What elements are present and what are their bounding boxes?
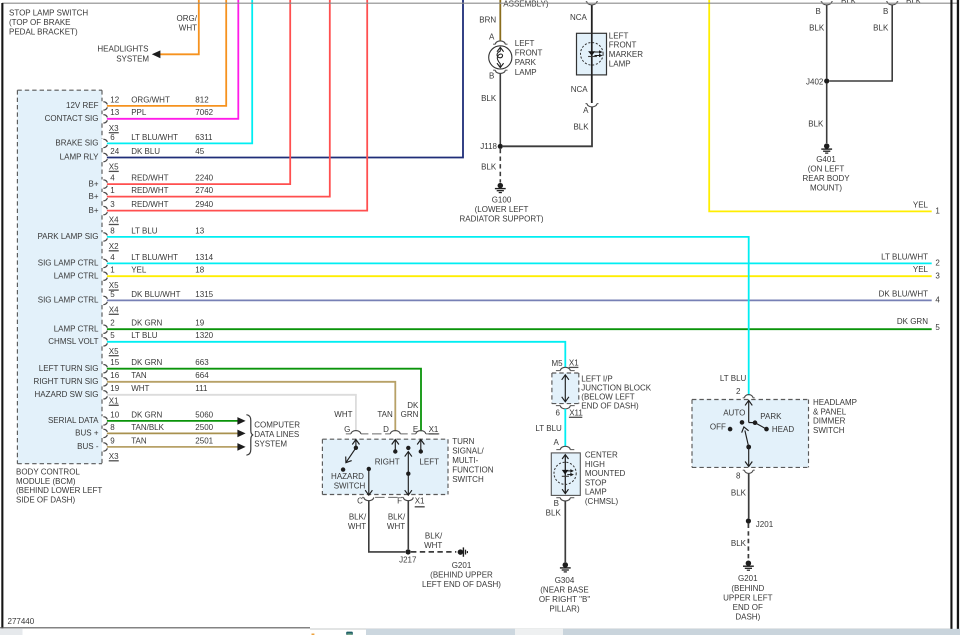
wire BLK/WHT from pin F xyxy=(407,501,409,550)
svg-text:SERIAL DATA: SERIAL DATA xyxy=(48,416,99,425)
bottom strip teal icon xyxy=(346,632,353,635)
svg-text:SWITCH: SWITCH xyxy=(452,475,484,484)
svg-text:LEFT I/P: LEFT I/P xyxy=(581,374,612,383)
svg-text:LT BLU/WHT: LT BLU/WHT xyxy=(881,252,928,261)
svg-text:MOUNTED: MOUNTED xyxy=(585,469,626,478)
wire RED/WHT 2940 xyxy=(107,0,367,211)
svg-text:HIGH: HIGH xyxy=(585,460,605,469)
svg-text:TAN: TAN xyxy=(131,371,147,380)
svg-text:J118: J118 xyxy=(480,142,497,151)
right turn contact xyxy=(392,440,399,445)
junction block pin M5 xyxy=(556,370,561,372)
turn signal connector X1 face bottom xyxy=(362,496,414,498)
svg-text:E: E xyxy=(413,425,418,434)
svg-text:RIGHT: RIGHT xyxy=(375,457,400,466)
svg-text:X5: X5 xyxy=(109,347,119,356)
svg-text:2240: 2240 xyxy=(195,174,213,183)
wire BLK/WHT from pin C xyxy=(369,501,405,552)
svg-text:LEFT: LEFT xyxy=(515,39,535,48)
CHMSL pin B xyxy=(556,497,560,499)
contact OFF xyxy=(728,427,733,432)
ground G201 right xyxy=(746,560,752,566)
svg-text:X5: X5 xyxy=(109,281,119,290)
svg-text:CONTACT SIG: CONTACT SIG xyxy=(45,114,99,123)
junction block pin 6 xyxy=(556,405,561,407)
page right border inner xyxy=(950,0,952,629)
svg-text:X11: X11 xyxy=(569,409,583,418)
svg-text:FRONT: FRONT xyxy=(609,41,637,50)
headlights system arrow xyxy=(152,50,161,58)
svg-text:6: 6 xyxy=(110,133,115,142)
svg-text:1: 1 xyxy=(935,207,940,216)
svg-text:PEDAL BRACKET): PEDAL BRACKET) xyxy=(9,28,78,37)
svg-text:G: G xyxy=(344,425,350,434)
svg-text:12V REF: 12V REF xyxy=(66,101,99,110)
svg-text:3: 3 xyxy=(935,271,940,280)
svg-text:8: 8 xyxy=(736,471,741,480)
svg-text:B: B xyxy=(554,499,559,508)
svg-text:3: 3 xyxy=(110,200,115,209)
svg-text:BLK: BLK xyxy=(573,123,589,132)
svg-text:JUNCTION BLOCK: JUNCTION BLOCK xyxy=(581,383,651,392)
svg-text:END OF DASH): END OF DASH) xyxy=(581,402,639,411)
svg-text:X5: X5 xyxy=(109,163,119,172)
svg-text:DK BLU: DK BLU xyxy=(131,147,160,156)
wire BLK J201 to G201 xyxy=(747,524,749,561)
svg-text:BLK/: BLK/ xyxy=(425,531,443,540)
svg-text:RED/WHT: RED/WHT xyxy=(131,200,168,209)
svg-text:2940: 2940 xyxy=(195,200,213,209)
svg-text:BLK/: BLK/ xyxy=(388,512,406,521)
svg-text:SWITCH: SWITCH xyxy=(813,426,845,435)
svg-text:B: B xyxy=(883,7,888,16)
svg-text:ASSEMBLY): ASSEMBLY) xyxy=(503,0,549,9)
svg-text:TAN: TAN xyxy=(131,436,147,445)
junction J217 xyxy=(405,549,410,554)
svg-text:WHT: WHT xyxy=(179,23,197,32)
page top border xyxy=(2,2,958,4)
svg-text:DATA LINES: DATA LINES xyxy=(254,430,299,439)
svg-text:45: 45 xyxy=(195,147,204,156)
svg-text:F: F xyxy=(397,497,402,506)
svg-text:HAZARD SW SIG: HAZARD SW SIG xyxy=(34,390,98,399)
svg-text:RED/WHT: RED/WHT xyxy=(131,186,168,195)
svg-text:4: 4 xyxy=(110,174,115,183)
contact HEAD xyxy=(764,427,769,432)
svg-text:(TOP OF BRAKE: (TOP OF BRAKE xyxy=(9,18,71,27)
svg-text:TAN/BLK: TAN/BLK xyxy=(131,423,164,432)
svg-text:5060: 5060 xyxy=(195,410,213,419)
svg-text:WHT: WHT xyxy=(131,384,149,393)
junction J118 xyxy=(498,144,503,149)
svg-text:A: A xyxy=(553,438,559,447)
wire BLK pin 8 to J201 xyxy=(748,474,750,519)
junction J201 xyxy=(746,518,751,523)
svg-text:SIG LAMP CTRL: SIG LAMP CTRL xyxy=(38,259,99,268)
svg-text:DK GRN: DK GRN xyxy=(897,317,928,326)
svg-text:LT BLU: LT BLU xyxy=(720,374,747,383)
cut connector B right xyxy=(886,1,887,3)
svg-text:(NEAR BASE: (NEAR BASE xyxy=(540,586,588,595)
svg-text:LT BLU/WHT: LT BLU/WHT xyxy=(131,253,178,262)
marker lamp top connector cut xyxy=(586,1,587,3)
svg-text:1315: 1315 xyxy=(195,290,213,299)
wire marker lamp to pin A xyxy=(591,75,593,103)
svg-text:J217: J217 xyxy=(399,556,417,565)
svg-text:LT BLU: LT BLU xyxy=(535,424,562,433)
contact line to pin F xyxy=(406,446,410,450)
svg-text:M5: M5 xyxy=(551,359,563,368)
svg-text:SYSTEM: SYSTEM xyxy=(116,54,149,63)
wire TAN/BLK 2500 bus+ xyxy=(107,432,238,434)
svg-text:BUS +: BUS + xyxy=(75,429,99,438)
wire BLK/WHT J217 to G201 xyxy=(411,551,456,553)
svg-text:FUNCTION: FUNCTION xyxy=(452,465,494,474)
svg-text:BUS -: BUS - xyxy=(77,442,99,451)
wire BLK CHMSL to G304 xyxy=(564,501,566,562)
svg-text:X1: X1 xyxy=(569,359,579,368)
svg-text:OF RIGHT "B": OF RIGHT "B" xyxy=(539,595,590,604)
svg-text:SIGNAL/: SIGNAL/ xyxy=(452,446,484,455)
svg-text:WHT: WHT xyxy=(334,410,352,419)
svg-text:X1: X1 xyxy=(429,425,439,434)
svg-text:SIDE OF DASH): SIDE OF DASH) xyxy=(16,496,75,505)
wire DK GRN 663 left turn xyxy=(107,369,421,432)
contact AUTO xyxy=(740,420,745,425)
bottom strip blue-gray panel xyxy=(366,629,515,635)
svg-text:PARK: PARK xyxy=(515,58,537,67)
svg-text:HEAD: HEAD xyxy=(772,425,794,434)
svg-text:(BEHIND UPPER: (BEHIND UPPER xyxy=(430,571,493,580)
svg-text:G304: G304 xyxy=(555,576,575,585)
svg-text:BLK: BLK xyxy=(809,24,825,33)
svg-text:LAMP CTRL: LAMP CTRL xyxy=(54,271,99,280)
turn signal switch box xyxy=(322,439,448,494)
svg-text:G401: G401 xyxy=(816,155,836,164)
svg-text:LEFT TURN SIG: LEFT TURN SIG xyxy=(39,364,99,373)
left front marker lamp xyxy=(577,33,607,75)
center high mounted stop lamp xyxy=(551,453,580,496)
svg-text:277440: 277440 xyxy=(8,617,35,626)
link PARK to HEAD xyxy=(755,423,767,429)
svg-text:1314: 1314 xyxy=(195,253,213,262)
svg-text:19: 19 xyxy=(195,319,204,328)
svg-text:J402: J402 xyxy=(806,78,824,87)
svg-text:LAMP RLY: LAMP RLY xyxy=(60,153,99,162)
svg-text:DK GRN: DK GRN xyxy=(131,410,162,419)
svg-text:SWITCH: SWITCH xyxy=(334,482,366,491)
wire LT BLU/WHT 6311 xyxy=(107,0,252,143)
wire YEL 18 xyxy=(107,275,932,277)
svg-text:7062: 7062 xyxy=(195,108,213,117)
svg-text:G201: G201 xyxy=(738,574,758,583)
svg-text:BRAKE SIG: BRAKE SIG xyxy=(55,139,98,148)
wire RED/WHT 2240 xyxy=(107,0,290,184)
page bottom border xyxy=(0,627,310,629)
wire LT BLU 1320 chmsl volt xyxy=(107,342,565,368)
svg-text:B+: B+ xyxy=(88,179,98,188)
svg-text:5: 5 xyxy=(110,331,115,340)
park lamp connector pin B xyxy=(493,69,495,71)
bottom strip left gray block xyxy=(0,628,23,635)
wire TAN 2501 bus- xyxy=(107,446,238,448)
bottom strip right panel xyxy=(563,629,960,635)
wire ORG/WHT to headlights system xyxy=(160,0,199,54)
svg-text:18: 18 xyxy=(195,266,204,275)
wire RED/WHT 2740 xyxy=(107,0,330,197)
wire PPL 7062 xyxy=(107,0,238,119)
svg-text:PARK LAMP SIG: PARK LAMP SIG xyxy=(37,232,98,241)
svg-text:YEL: YEL xyxy=(913,265,929,274)
headlamp switch pin 8 xyxy=(743,469,745,471)
svg-text:D: D xyxy=(383,425,389,434)
svg-text:RED/WHT: RED/WHT xyxy=(131,174,168,183)
svg-text:BLK: BLK xyxy=(481,94,497,103)
left I/P junction block box xyxy=(552,373,579,404)
contact line to pin C xyxy=(367,467,371,471)
svg-text:RADIATOR SUPPORT): RADIATOR SUPPORT) xyxy=(459,215,543,224)
svg-text:NCA: NCA xyxy=(571,85,589,94)
wire BRN park lamp xyxy=(499,0,501,41)
svg-text:8: 8 xyxy=(110,423,115,432)
svg-text:2500: 2500 xyxy=(195,423,213,432)
wire TAN 664 right turn xyxy=(107,382,395,431)
svg-text:13: 13 xyxy=(110,108,119,117)
svg-text:G100: G100 xyxy=(492,196,512,205)
ground G100 xyxy=(498,183,504,189)
svg-text:WHT: WHT xyxy=(424,541,442,550)
svg-text:X1: X1 xyxy=(109,396,119,405)
computer data lines brace xyxy=(246,415,253,456)
wire LT BLU junction block to CHMSL xyxy=(564,409,566,447)
svg-text:9: 9 xyxy=(110,436,115,445)
svg-text:LT BLU/WHT: LT BLU/WHT xyxy=(131,133,178,142)
svg-text:5: 5 xyxy=(110,290,115,299)
svg-text:(ON LEFT: (ON LEFT xyxy=(808,165,845,174)
svg-text:2: 2 xyxy=(935,259,940,268)
svg-text:2501: 2501 xyxy=(195,436,213,445)
svg-text:LAMP: LAMP xyxy=(515,68,537,77)
svg-text:10: 10 xyxy=(110,410,119,419)
svg-text:6: 6 xyxy=(556,409,561,418)
svg-text:LAMP: LAMP xyxy=(585,488,607,497)
wire BLK right to J402 xyxy=(829,5,892,81)
svg-text:1: 1 xyxy=(110,266,115,275)
svg-text:BLK: BLK xyxy=(808,120,824,129)
svg-text:TAN: TAN xyxy=(377,410,393,419)
svg-text:BLK: BLK xyxy=(731,489,747,498)
svg-text:WHT: WHT xyxy=(348,522,366,531)
svg-text:MODULE (BCM): MODULE (BCM) xyxy=(16,477,76,486)
svg-text:MARKER: MARKER xyxy=(609,50,643,59)
svg-text:13: 13 xyxy=(195,226,204,235)
ground G304 xyxy=(563,562,569,568)
svg-text:END OF: END OF xyxy=(733,603,763,612)
svg-text:8: 8 xyxy=(110,226,115,235)
svg-text:SIG LAMP CTRL: SIG LAMP CTRL xyxy=(38,296,99,305)
svg-text:DK GRN: DK GRN xyxy=(131,319,162,328)
wire DK GRN 5060 serial data xyxy=(107,420,238,422)
svg-text:HAZARD: HAZARD xyxy=(331,472,364,481)
svg-text:LEFT: LEFT xyxy=(419,457,439,466)
svg-text:REAR BODY: REAR BODY xyxy=(802,174,850,183)
svg-text:J201: J201 xyxy=(756,520,774,529)
svg-text:BLK: BLK xyxy=(873,24,889,33)
svg-text:BLK: BLK xyxy=(731,539,747,548)
junction J402 xyxy=(824,78,829,83)
svg-text:GRN: GRN xyxy=(401,410,419,419)
svg-text:YEL: YEL xyxy=(913,200,929,209)
wire DK GRN 19 xyxy=(107,328,932,330)
left front park lamp bulb xyxy=(489,46,512,69)
hazard switch contact xyxy=(352,440,359,445)
svg-text:(CHMSL): (CHMSL) xyxy=(585,497,619,506)
wire LT BLU/WHT 1314 xyxy=(107,262,932,264)
svg-text:LT BLU: LT BLU xyxy=(131,331,158,340)
wire BLK park lamp to J118 xyxy=(499,74,501,144)
svg-text:NCA: NCA xyxy=(570,13,588,22)
wire WHT 111 hazard sw xyxy=(107,395,356,431)
headlamp switch common xyxy=(745,400,752,405)
svg-text:(LOWER LEFT: (LOWER LEFT xyxy=(475,205,529,214)
wire DK BLU 45 xyxy=(107,0,463,158)
svg-text:X3: X3 xyxy=(109,124,119,133)
svg-text:COMPUTER: COMPUTER xyxy=(254,420,300,429)
svg-text:DK GRN: DK GRN xyxy=(131,358,162,367)
svg-text:X4: X4 xyxy=(109,216,119,225)
svg-text:AUTO: AUTO xyxy=(723,408,745,417)
park lamp connector pin A xyxy=(493,43,495,45)
svg-text:PPL: PPL xyxy=(131,108,147,117)
svg-text:B: B xyxy=(815,7,820,16)
wire ORG/WHT 812 xyxy=(107,0,226,106)
svg-text:(BELOW LEFT: (BELOW LEFT xyxy=(581,393,634,402)
svg-text:B+: B+ xyxy=(88,192,98,201)
svg-text:PARK: PARK xyxy=(760,412,782,421)
svg-text:(BEHIND LOWER LEFT: (BEHIND LOWER LEFT xyxy=(16,486,102,495)
svg-text:MULTI-: MULTI- xyxy=(452,456,478,465)
wire BLK left to J402 xyxy=(826,5,828,79)
ground G401 xyxy=(824,143,830,149)
svg-text:1: 1 xyxy=(110,186,115,195)
svg-text:663: 663 xyxy=(195,358,209,367)
svg-text:LAMP CTRL: LAMP CTRL xyxy=(54,324,99,333)
svg-text:2: 2 xyxy=(736,387,741,396)
svg-text:BODY CONTROL: BODY CONTROL xyxy=(16,467,80,476)
computer data lines arrows xyxy=(237,417,245,425)
svg-text:812: 812 xyxy=(195,95,209,104)
svg-text:X2: X2 xyxy=(109,242,119,251)
svg-text:B+: B+ xyxy=(88,206,98,215)
headlamp and panel dimmer switch box xyxy=(692,400,809,468)
svg-text:1320: 1320 xyxy=(195,331,213,340)
wire LT BLU 13 park lamp sig xyxy=(107,237,749,395)
svg-text:A: A xyxy=(489,32,495,41)
page left border xyxy=(1,3,3,629)
svg-text:5: 5 xyxy=(935,323,940,332)
svg-text:19: 19 xyxy=(110,384,119,393)
svg-text:DK BLU/WHT: DK BLU/WHT xyxy=(131,290,180,299)
svg-text:ORG/WHT: ORG/WHT xyxy=(131,95,170,104)
turn signal connector X1 face top xyxy=(346,433,440,435)
svg-text:YEL: YEL xyxy=(131,266,147,275)
svg-text:LT BLU: LT BLU xyxy=(131,226,158,235)
svg-text:DK BLU/WHT: DK BLU/WHT xyxy=(879,289,928,298)
body control module BCM connector box xyxy=(17,90,102,464)
svg-text:A: A xyxy=(583,106,589,115)
bottom strip orange icon xyxy=(312,634,315,635)
svg-text:LEFT: LEFT xyxy=(609,31,629,40)
bottom strip light tab xyxy=(515,629,563,635)
svg-text:DASH): DASH) xyxy=(735,613,760,622)
wire DK BLU/WHT 1315 xyxy=(107,299,932,301)
cut connector B left xyxy=(821,1,822,3)
svg-text:BLK: BLK xyxy=(481,162,497,171)
svg-text:WHT: WHT xyxy=(387,522,405,531)
wire to pin 8 xyxy=(748,447,750,467)
svg-text:STOP: STOP xyxy=(585,478,607,487)
svg-text:6311: 6311 xyxy=(195,133,213,142)
svg-text:X3: X3 xyxy=(109,452,119,461)
svg-text:CENTER: CENTER xyxy=(585,451,618,460)
switch lever xyxy=(745,431,749,448)
svg-text:DK: DK xyxy=(407,401,419,410)
svg-text:CHMSL VOLT: CHMSL VOLT xyxy=(48,337,98,346)
junction block internal wire xyxy=(562,375,569,380)
svg-text:& PANEL: & PANEL xyxy=(813,407,847,416)
svg-text:LAMP: LAMP xyxy=(609,60,631,69)
page right border outer xyxy=(957,0,959,629)
svg-text:B: B xyxy=(489,72,494,81)
svg-text:111: 111 xyxy=(195,384,208,393)
svg-text:2740: 2740 xyxy=(195,186,213,195)
svg-text:BLK: BLK xyxy=(546,509,562,518)
svg-text:BLK/: BLK/ xyxy=(349,512,367,521)
svg-text:SYSTEM: SYSTEM xyxy=(254,439,287,448)
wire BLK J118 to G100 xyxy=(499,149,501,183)
svg-text:STOP LAMP SWITCH: STOP LAMP SWITCH xyxy=(9,8,88,17)
svg-text:TURN: TURN xyxy=(452,437,474,446)
svg-text:HEADLIGHTS: HEADLIGHTS xyxy=(97,45,148,54)
wire BLK J402 to G401 xyxy=(826,84,828,144)
svg-text:(BEHIND: (BEHIND xyxy=(731,584,764,593)
left turn contact xyxy=(417,440,424,445)
svg-text:15: 15 xyxy=(110,358,119,367)
ground G201 left xyxy=(458,549,464,555)
svg-text:FRONT: FRONT xyxy=(515,49,543,58)
svg-text:4: 4 xyxy=(935,296,940,305)
wire marker lamp top xyxy=(591,5,593,33)
svg-text:HEADLAMP: HEADLAMP xyxy=(813,398,857,407)
CHMSL pin A xyxy=(556,449,560,451)
off-page wire 1 YEL xyxy=(709,0,932,211)
svg-text:664: 664 xyxy=(195,371,209,380)
marker lamp connector pin A xyxy=(586,103,588,105)
svg-text:24: 24 xyxy=(110,147,119,156)
svg-text:X4: X4 xyxy=(109,305,119,314)
svg-text:UPPER LEFT: UPPER LEFT xyxy=(723,593,772,602)
svg-text:DIMMER: DIMMER xyxy=(813,417,846,426)
svg-text:BRN: BRN xyxy=(479,15,496,24)
svg-text:OFF: OFF xyxy=(710,423,726,432)
svg-text:MOUNT): MOUNT) xyxy=(810,184,842,193)
svg-text:LEFT END OF DASH): LEFT END OF DASH) xyxy=(422,580,501,589)
svg-text:16: 16 xyxy=(110,371,119,380)
contact PARK xyxy=(753,420,758,425)
svg-text:4: 4 xyxy=(110,253,115,262)
svg-text:G201: G201 xyxy=(452,561,472,570)
svg-text:X1: X1 xyxy=(415,497,425,506)
